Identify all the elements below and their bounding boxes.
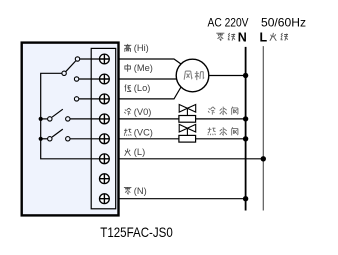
svg-text:(N): (N) [134, 186, 147, 196]
switch S1 arm [66, 61, 76, 72]
wire: common bus from L terminal up to selector feed [41, 73, 100, 159]
label 冷水阀 [208, 107, 238, 115]
node bus-V0 junction [39, 117, 43, 121]
label 热(VC) [124, 127, 153, 137]
node N-row junction [243, 196, 248, 201]
wire V0 row to valve 1 [119, 118, 179, 120]
terminal strip [91, 48, 116, 208]
wire N row to N line [119, 198, 246, 200]
switch S2 pivot [48, 117, 52, 121]
terminal 5 (VC) [100, 134, 110, 144]
svg-text:(VC): (VC) [134, 127, 153, 137]
N power line [245, 47, 247, 211]
valve V1 coil [179, 116, 196, 123]
switch S1 selector pivot [62, 71, 66, 75]
terminal 7 (unused) [100, 174, 110, 184]
wire Hi row to fan [119, 59, 181, 64]
svg-text:(Me): (Me) [134, 63, 153, 73]
svg-text:(Lo): (Lo) [134, 83, 151, 93]
valve V1 stem [186, 108, 188, 115]
valve V2 stem [186, 128, 188, 135]
node valve1-N junction [243, 116, 248, 121]
switch S1 contact Me [74, 77, 78, 81]
label 中(Me) [125, 63, 153, 73]
node bus-VC junction [39, 137, 43, 141]
terminal 3 (Lo) [100, 94, 110, 104]
thermostat outer box [22, 43, 119, 216]
wire bus to switch S2 [41, 118, 48, 120]
wire contact Lo to terminal 3 [79, 98, 100, 100]
terminal 6 (L) [100, 154, 110, 164]
label 冷(V0) [124, 107, 151, 117]
svg-text:N: N [238, 30, 247, 44]
label 零线 N [216, 33, 235, 41]
terminal 1 (Hi) [100, 54, 110, 64]
wire S3 contact to terminal 5 [70, 138, 100, 140]
wire contact Me to terminal 2 [79, 78, 100, 80]
wire L row to L line [119, 158, 263, 160]
switch S3 contact [66, 137, 70, 141]
switch S1 contact Hi [75, 57, 79, 61]
valve V2 body (bowtie) [179, 124, 196, 132]
valve V1 body (bowtie) [179, 105, 196, 113]
node fan-N junction [243, 73, 248, 78]
wire VC row to valve 2 [119, 138, 179, 140]
svg-text:L: L [259, 30, 267, 44]
svg-text:(L): (L) [134, 147, 145, 157]
terminal 8 (N) [100, 194, 110, 204]
svg-text:T125FAC-JS0: T125FAC-JS0 [100, 224, 173, 240]
wire fan to N line [209, 75, 246, 77]
switch S3 arm (open) [52, 129, 63, 137]
switch S2 arm (open) [52, 109, 63, 117]
fan M1 [176, 59, 209, 92]
wire bus to switch S3 [41, 138, 48, 140]
terminal 2 (Me) [100, 74, 110, 84]
switch S2 contact [66, 117, 70, 121]
L power line [262, 46, 264, 210]
label 热水阀 [208, 127, 238, 135]
wire S2 contact to terminal 4 [70, 118, 100, 120]
fan label 风机 [184, 71, 204, 80]
valve V2 coil [179, 135, 196, 142]
node L-row junction [261, 156, 266, 161]
label 低(Lo) [125, 83, 151, 93]
terminal 4 (V0) [100, 114, 110, 124]
label 高(Hi) [124, 43, 149, 53]
switch S1 contact Lo [74, 97, 78, 101]
label 火(L) [125, 147, 146, 157]
wire valve 2 to N line [196, 138, 246, 140]
wire Lo row to fan [119, 87, 181, 99]
switch S3 pivot [48, 137, 52, 141]
svg-text:50/60Hz: 50/60Hz [261, 15, 306, 29]
wire valve 1 to N line [196, 118, 246, 120]
wire Me row to fan [119, 78, 177, 80]
label 零(N) [124, 186, 147, 196]
svg-text:AC 220V: AC 220V [208, 15, 249, 29]
svg-text:(V0): (V0) [134, 107, 152, 117]
svg-text:(Hi): (Hi) [134, 43, 149, 53]
wire contact Hi to terminal 1 [80, 58, 100, 60]
node valve2-N junction [243, 136, 248, 141]
